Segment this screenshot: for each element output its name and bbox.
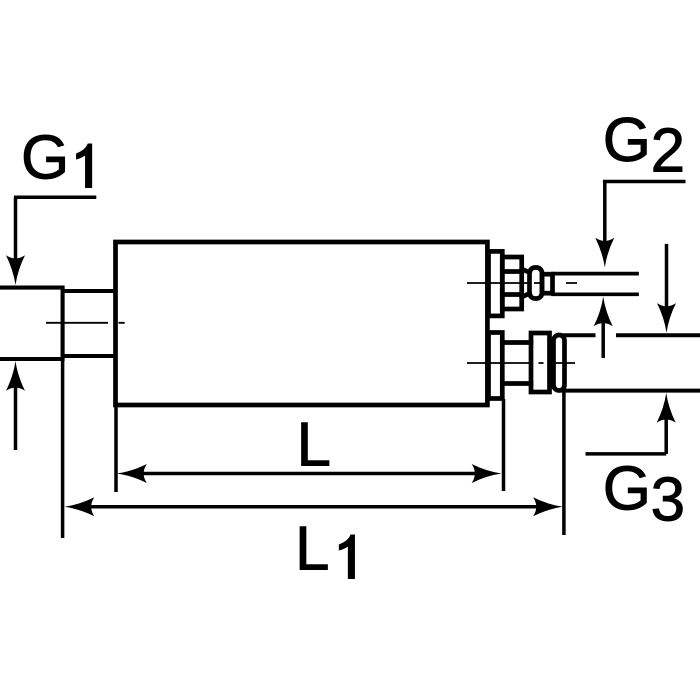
svg-text:G: G <box>603 106 651 175</box>
svg-text:G: G <box>603 455 651 524</box>
svg-text:2: 2 <box>651 117 685 186</box>
svg-text:G: G <box>21 123 69 192</box>
svg-text:3: 3 <box>651 466 685 535</box>
svg-text:L: L <box>297 410 331 479</box>
svg-text:L: L <box>295 515 329 584</box>
